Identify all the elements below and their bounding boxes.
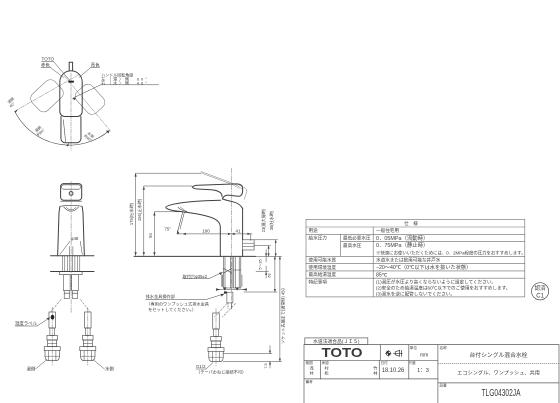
svg-text:5～35: 5～35 [259, 259, 263, 269]
hose below (side) [227, 292, 233, 308]
arc zero-position arrow [66, 143, 69, 147]
row rule right part [438, 382, 559, 384]
svg-text:−20～40℃（0℃以下は水を抜いた状態）: −20～40℃（0℃以下は水を抜いた状態） [376, 263, 471, 271]
mounting washer and nut [60, 272, 83, 275]
bolt tips [223, 287, 227, 290]
svg-text:水側: 水側 [105, 365, 114, 371]
svg-text:備考: 備考 [306, 379, 314, 384]
centerline side view [230, 168, 232, 259]
lever (normal position) [192, 187, 222, 197]
svg-text:承認: 承認 [322, 360, 330, 365]
svg-text:TOTO: TOTO [42, 57, 55, 62]
svg-text:林: 林 [373, 370, 378, 377]
svg-text:0．05MPa（流動時）: 0．05MPa（流動時） [376, 234, 428, 242]
temperature label dot [51, 315, 55, 320]
svg-text:75°: 75° [165, 227, 172, 232]
table text [309, 220, 526, 297]
svg-text:(3)湯水を逆に配管しないでください。: (3)湯水を逆に配管しないでください。 [376, 290, 455, 297]
aerator mouth arcs [178, 207, 187, 211]
body cap under lever [222, 199, 242, 209]
svg-text:特記事項: 特記事項 [309, 279, 328, 286]
arc label cold side [83, 130, 96, 143]
handle head outline [61, 184, 82, 201]
vertical centerline [70, 73, 72, 151]
faucet body (plan) [60, 71, 82, 117]
svg-text:湯側: 湯側 [27, 365, 36, 372]
handle hole [69, 192, 73, 196]
svg-text:エコシングル、ワンプッシュ、共用: エコシングル、ワンプッシュ、共用 [457, 369, 540, 377]
svg-text:検図: 検図 [306, 360, 314, 365]
svg-text:φ48: φ48 [71, 236, 79, 241]
dotted rule in name column [438, 362, 559, 364]
svg-text:仕 様: 仕 様 [404, 220, 418, 227]
svg-text:台付シングル混合水栓: 台付シングル混合水栓 [470, 351, 528, 359]
threaded shank (front) [62, 256, 80, 272]
arc label hot side [33, 124, 46, 137]
svg-text:G1/2: G1/2 [196, 364, 206, 369]
svg-text:mm: mm [420, 353, 428, 359]
svg-text:85℃: 85℃ [376, 272, 388, 278]
svg-text:赤色: 赤色 [41, 62, 50, 68]
dim 156 (height closed) [136, 186, 192, 256]
projection dashes to right detail [215, 304, 228, 318]
svg-text:175(吐水時): 175(吐水時) [128, 202, 134, 225]
table vertical rules [340, 234, 342, 256]
svg-text:品番: 品番 [440, 383, 448, 388]
svg-text:36(吐水時): 36(吐水時) [268, 210, 274, 230]
svg-text:1：3: 1：3 [417, 368, 429, 374]
spout outline [166, 200, 221, 211]
svg-text:水道水または飲用可能な井戸水: 水道水または飲用可能な井戸水 [376, 257, 441, 264]
drain rod end cap [224, 291, 227, 293]
outlet connection rect [243, 240, 255, 250]
label TOTO [42, 57, 55, 62]
svg-text:18.10.26: 18.10.26 [382, 368, 405, 374]
raised lever tip phantom [237, 184, 247, 200]
rotated handle position left (hot extreme) [28, 77, 66, 115]
svg-text:一般住宅用: 一般住宅用 [376, 227, 399, 234]
far-left small label [6, 96, 19, 109]
column rules [379, 345, 381, 361]
TOTO logo mark on handle [68, 81, 74, 83]
svg-text:松: 松 [325, 370, 329, 377]
title block cell values [310, 351, 540, 399]
handle axis phantom line right [64, 76, 111, 131]
handle rotation note [101, 72, 147, 86]
counter line (side) [134, 255, 256, 257]
svg-text:ソケット先端まで(通常時) 450: ソケット先端まで(通常時) 450 [280, 287, 286, 343]
dim 94 (spout height) [148, 212, 187, 256]
mounting hole dim arrows [216, 288, 221, 290]
lever tip protrusion (plan) [69, 62, 72, 70]
spout body below handle (plan) [61, 117, 81, 143]
svg-text:単位: 単位 [410, 345, 418, 350]
title block outer border [304, 344, 559, 346]
body right edge [242, 208, 244, 240]
svg-text:100: 100 [202, 229, 210, 234]
svg-text:日付: 日付 [381, 360, 389, 365]
svg-text:給水圧力: 給水圧力 [309, 235, 328, 242]
svg-text:69: 69 [268, 273, 272, 277]
threaded shank (side) [223, 257, 240, 288]
svg-text:認済: 認済 [534, 284, 546, 292]
handle axis phantom line left [16, 75, 79, 111]
body sides tapering [58, 207, 60, 256]
svg-text:使用環境温度: 使用環境温度 [309, 264, 337, 271]
spout interior edge (plan) [63, 120, 65, 142]
svg-text:最高給湯温度: 最高給湯温度 [309, 271, 337, 278]
svg-text:TOTO: TOTO [322, 345, 363, 360]
svg-text:7.5: 7.5 [264, 363, 268, 368]
svg-text:最低必要水圧: 最低必要水圧 [343, 235, 371, 242]
leader TOTO label [42, 61, 54, 63]
bottom right hose detail (supply connector, side view) [208, 309, 224, 368]
threaded stud shaded [221, 275, 223, 287]
cold hose detail (cold supply connector) [80, 308, 96, 367]
svg-text:使用可能水質: 使用可能水質 [309, 257, 337, 264]
dim 450 hose length [223, 256, 286, 361]
drain rod guides inside base [68, 247, 70, 256]
handle top lens [62, 185, 81, 189]
svg-text:右（水）側 40°: 右（水）側 40° [101, 79, 147, 85]
svg-text:23(最大開時): 23(最大開時) [260, 208, 266, 232]
svg-text:をセットしてください。）: をセットしてください。） [148, 306, 196, 313]
svg-text:井: 井 [310, 370, 314, 377]
registration stamp circle [532, 283, 549, 300]
svg-text:(1)湯圧が水圧より高くならないように設定してください。: (1)湯圧が水圧より高くならないように設定してください。 [376, 279, 496, 286]
svg-text:尺度: 尺度 [409, 360, 417, 365]
dim 5~35 counter thickness [256, 250, 269, 279]
svg-text:水道法適合品(ＪＩＳ): 水道法適合品(ＪＩＳ) [313, 338, 360, 345]
svg-text:※快適にお使いいただくためには、0．2MPa程度の圧力をおす: ※快適にお使いいただくためには、0．2MPa程度の圧力をおすすめします。 [376, 249, 526, 256]
JIS compliance box [305, 338, 368, 345]
svg-text:41: 41 [236, 229, 241, 234]
rotated handle position right (cold extreme) [73, 82, 108, 117]
dims 23 / 36 right side [254, 208, 277, 256]
svg-text:156(止水時): 156(止水時) [136, 198, 142, 221]
supply hoses (front) [64, 275, 79, 299]
svg-text:最高水圧: 最高水圧 [343, 242, 362, 249]
svg-text:C1: C1 [536, 294, 544, 300]
svg-text:94: 94 [148, 233, 153, 238]
svg-text:（テーパおねじ接続不可）: （テーパおねじ接続不可） [196, 369, 246, 376]
projection dashes to details [51, 300, 61, 312]
third angle projection symbol [386, 350, 403, 356]
row rules left part [304, 359, 438, 361]
centerline front view [70, 182, 72, 314]
dim line 100 / 41 [177, 229, 252, 241]
aerator arcs (front) [64, 207, 79, 211]
dim 7.5 thread tip [223, 346, 272, 369]
neck joint lines [61, 200, 82, 202]
body left edge [219, 227, 221, 256]
dim 69 shank length [244, 256, 277, 292]
rotation arc with arrows [15, 111, 110, 145]
svg-text:0．75MPa（静止時）: 0．75MPa（静止時） [376, 241, 428, 249]
raised lever phantom outline [201, 172, 243, 191]
svg-text:TLG04302JA: TLG04302JA [482, 388, 521, 399]
table outer frame [306, 219, 525, 297]
dim 175 (height open) [128, 173, 201, 255]
title block small labels [306, 338, 448, 388]
drain callout text [146, 293, 210, 313]
svg-text:用途: 用途 [309, 227, 319, 234]
hot hose detail (hot supply connector) [44, 308, 60, 367]
counter underside line [51, 271, 95, 273]
svg-text:名称: 名称 [440, 345, 448, 350]
table horizontal rules [306, 226, 525, 228]
water stream 75deg line [177, 212, 183, 234]
counter top line [51, 255, 95, 257]
